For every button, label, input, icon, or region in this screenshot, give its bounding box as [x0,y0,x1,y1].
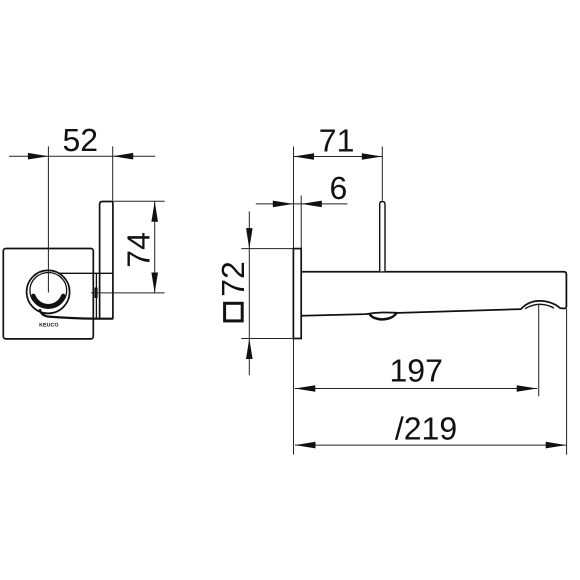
dimension 6: right arrow [301,201,322,208]
dimension 71: left arrow [294,153,315,160]
dimension 74: label [120,232,156,268]
dimension 72: line [241,211,293,375]
front view: lever hub side edge [95,273,97,318]
front view: square wall plate [3,249,93,339]
dimension 197: line [295,388,537,390]
dimension 219: right arrow [546,442,567,449]
dimension 74: bottom arrow [151,273,158,294]
dimension 71: line [294,156,383,158]
dimension 72: label [215,261,251,297]
dimension 52: label [63,122,99,158]
dimension 72: square symbol [225,303,243,321]
side view: wall face extension line [293,147,295,455]
dimension 74: top arrow [151,201,158,222]
svg-text:52: 52 [63,122,99,158]
dimension 197: right arrow [517,385,538,392]
front view: vertical centerline [47,146,49,292]
svg-text:/219: /219 [395,410,457,446]
dimension 6: left arrow [273,201,294,208]
front view: knob outer circle [27,270,70,313]
dimension 52: right arrow [113,153,134,160]
side view: lever pin [380,202,385,272]
front view: horizontal centerline [91,292,165,294]
dimension 197: left arrow [295,385,316,392]
side view: spout outline [301,272,566,316]
dimension 72: top arrow [246,228,253,249]
dimension 72: bottom arrow [246,339,253,360]
dimension 71: label [319,122,355,158]
svg-text:KEUCO: KEUCO [39,322,58,328]
dimension 219: line [295,444,566,446]
front view: lever hub top line [60,272,113,274]
svg-text:71: 71 [319,122,355,158]
front view: knob inner shadow arc [33,296,63,306]
side view: spout tip inner arc [525,304,554,308]
side view: aerator crescent [370,313,397,319]
dimension 52: line [9,146,155,200]
dimension 6: label [330,170,348,206]
dimension 219: left arrow [295,442,316,449]
dimension 71: extension line to pin [381,147,383,201]
svg-text:72: 72 [215,261,251,297]
front view: hub stem shadow [95,288,98,299]
dimension 197: extension line [538,304,540,397]
svg-text:6: 6 [330,170,348,206]
dimension 74: line [114,201,165,293]
front view: lever bottom sweep [40,309,114,319]
svg-text:74: 74 [120,232,156,268]
dimension 219: label [395,410,457,446]
dimension 52: left arrow [28,153,49,160]
dimension 197: label [390,353,443,389]
dimension 6: line [256,196,348,249]
front view: lever blade (vertical grip) [100,202,113,319]
front view: knob inner circle [30,273,67,309]
side view: wall plate [293,249,301,339]
front view: KEUCO logo text [39,322,58,328]
dimension 71: right arrow [362,153,383,160]
dimension 219: extension line [566,309,568,455]
svg-text:197: 197 [390,353,443,389]
